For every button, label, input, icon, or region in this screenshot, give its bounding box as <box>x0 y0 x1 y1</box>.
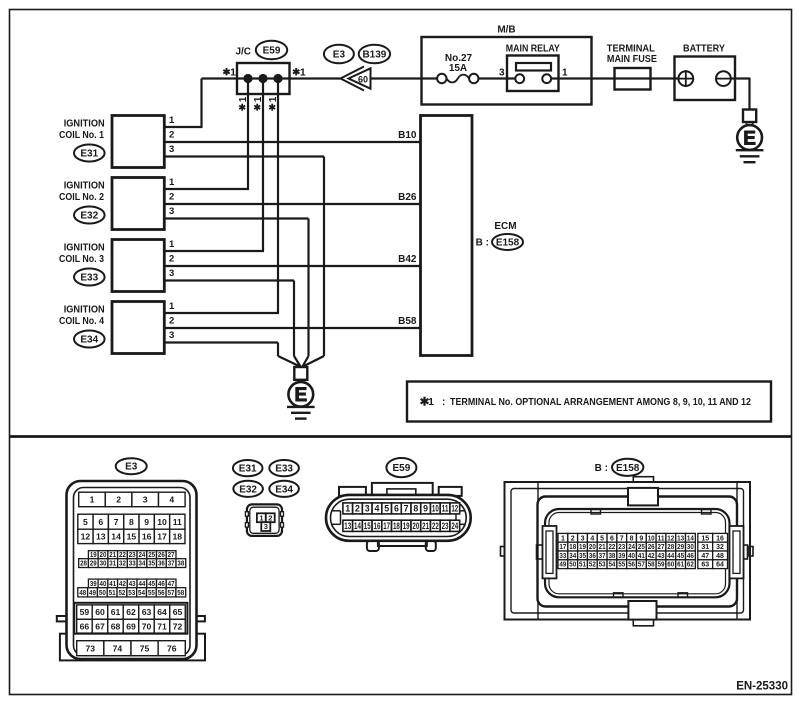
svg-text:BATTERY: BATTERY <box>683 44 725 55</box>
svg-text:8: 8 <box>413 504 418 514</box>
E158 pins 33-46 <box>558 551 695 560</box>
svg-text:E59: E59 <box>393 463 411 474</box>
svg-text:51: 51 <box>579 562 586 569</box>
svg-text:14: 14 <box>354 521 361 531</box>
svg-text:7: 7 <box>620 535 624 542</box>
svg-text:40: 40 <box>628 553 635 560</box>
svg-text:2: 2 <box>268 513 272 522</box>
svg-text:48: 48 <box>716 553 724 560</box>
ignition coil No.3 (E33) <box>59 240 164 292</box>
svg-text:15A: 15A <box>449 63 467 74</box>
svg-text:33: 33 <box>129 561 136 568</box>
svg-text:57: 57 <box>168 590 175 597</box>
svg-text:IGNITION: IGNITION <box>64 181 105 192</box>
svg-text:28: 28 <box>80 561 87 568</box>
svg-text:44: 44 <box>138 581 145 588</box>
svg-text:E34: E34 <box>275 484 293 495</box>
label *1 (left of J/C) <box>223 67 236 79</box>
svg-text:34: 34 <box>569 553 576 560</box>
svg-text:IGNITION: IGNITION <box>64 305 105 316</box>
svg-text:32: 32 <box>119 561 126 568</box>
svg-text:3: 3 <box>169 144 174 155</box>
E31-E34 pin 3 <box>261 522 270 531</box>
E31-E34 pin 2 <box>266 513 275 522</box>
wire: coil No.2 pin 3 to ground <box>164 219 308 367</box>
svg-text:18: 18 <box>393 521 400 531</box>
wire: fuse No.27 to main relay pin 3 <box>479 77 520 79</box>
svg-text:1: 1 <box>169 115 175 126</box>
svg-text:53: 53 <box>599 562 606 569</box>
svg-text:1: 1 <box>238 96 249 102</box>
svg-text:1: 1 <box>428 396 434 408</box>
E158 pins 1-14 <box>558 533 695 542</box>
svg-text:COIL No. 1: COIL No. 1 <box>59 130 104 141</box>
svg-text:11: 11 <box>442 504 449 514</box>
svg-text:67: 67 <box>95 621 105 631</box>
svg-text:71: 71 <box>157 621 167 631</box>
svg-text:14: 14 <box>687 535 694 542</box>
wire: coil No.1 pin 2 to ECM B10 <box>164 141 420 143</box>
svg-text:72: 72 <box>173 621 183 631</box>
svg-text:40: 40 <box>100 581 107 588</box>
junction connector J/C E59 <box>235 41 289 94</box>
svg-text:13: 13 <box>344 521 351 531</box>
wire: J/C dot 1 to ignition coil No.2 pin 1 <box>164 79 249 190</box>
ground E (ignition coils) <box>287 367 315 419</box>
connector view E33 label <box>269 460 299 476</box>
svg-text:74: 74 <box>113 643 123 653</box>
svg-text:48: 48 <box>79 590 86 597</box>
E158 pins 31-32 <box>698 542 728 551</box>
svg-text:60: 60 <box>667 562 674 569</box>
svg-text:50: 50 <box>569 562 576 569</box>
svg-text:J/C: J/C <box>235 47 251 58</box>
svg-text:7: 7 <box>404 504 409 514</box>
svg-text:COIL No. 4: COIL No. 4 <box>59 316 104 327</box>
svg-text:E31: E31 <box>80 149 98 160</box>
svg-text:13: 13 <box>96 532 106 542</box>
svg-text:70: 70 <box>142 621 152 631</box>
svg-text:61: 61 <box>677 562 684 569</box>
node B58 <box>398 316 417 327</box>
svg-text:1: 1 <box>169 177 175 188</box>
svg-text:28: 28 <box>667 544 674 551</box>
wire: battery negative to ground <box>731 78 750 111</box>
wire: J/C dot 3 to ignition coil No.4 pin 1 <box>164 79 279 314</box>
svg-text:2: 2 <box>169 192 174 203</box>
svg-text:14: 14 <box>111 532 121 542</box>
node B10 <box>398 130 417 141</box>
svg-text:1: 1 <box>300 67 306 79</box>
svg-text:2: 2 <box>169 316 174 327</box>
svg-text:18: 18 <box>173 532 183 542</box>
svg-text:2: 2 <box>355 504 360 514</box>
svg-text:29: 29 <box>90 561 97 568</box>
svg-text:1: 1 <box>345 504 350 514</box>
svg-text:16: 16 <box>142 532 152 542</box>
node B26 <box>398 192 417 203</box>
svg-text:44: 44 <box>667 553 674 560</box>
E59 pins 1-12 <box>343 503 460 514</box>
svg-text:22: 22 <box>432 521 439 531</box>
svg-text:1: 1 <box>169 301 175 312</box>
svg-text:52: 52 <box>589 562 596 569</box>
label *1 (right of J/C) <box>293 67 306 79</box>
svg-text:20: 20 <box>412 521 419 531</box>
wire: in-line connector to fuse No.27 <box>371 77 442 79</box>
svg-text:61: 61 <box>111 607 121 617</box>
connector view E32 label <box>233 481 263 497</box>
svg-text:19: 19 <box>579 544 586 551</box>
wire: coil No.4 pin 2 to ECM B58 <box>164 327 420 329</box>
E3 pins 59-65 <box>77 605 186 619</box>
svg-text:1: 1 <box>268 96 279 102</box>
svg-text:IGNITION: IGNITION <box>64 119 105 130</box>
M/B fuse box <box>422 25 592 105</box>
connector E59 housing <box>326 483 471 551</box>
svg-text:E: E <box>743 129 756 150</box>
svg-text:42: 42 <box>119 581 126 588</box>
svg-text:10: 10 <box>648 535 655 542</box>
svg-text:1: 1 <box>169 239 175 250</box>
svg-text:45: 45 <box>148 581 155 588</box>
svg-text:M/B: M/B <box>497 25 515 36</box>
E3 pins 73-76 <box>77 641 186 656</box>
svg-text:53: 53 <box>128 590 135 597</box>
svg-text:68: 68 <box>111 621 121 631</box>
svg-text:E34: E34 <box>80 335 98 346</box>
in-line connector E3/B139 (arrow, pin 60) <box>324 45 390 91</box>
svg-text:B139: B139 <box>362 50 386 61</box>
svg-text:6: 6 <box>610 535 614 542</box>
svg-text:E32: E32 <box>239 484 257 495</box>
E3 pins 48-58 <box>78 588 186 597</box>
svg-text:B26: B26 <box>398 192 417 203</box>
svg-text:46: 46 <box>158 581 165 588</box>
svg-text:31: 31 <box>701 544 709 551</box>
svg-text:MAIN FUSE: MAIN FUSE <box>607 54 657 65</box>
svg-text:17: 17 <box>559 544 566 551</box>
svg-text:TERMINAL No. OPTIONAL ARRANGEM: TERMINAL No. OPTIONAL ARRANGEMENT AMONG … <box>450 397 751 408</box>
label *1 (wire 2) <box>253 96 264 110</box>
svg-text:3: 3 <box>169 330 174 341</box>
svg-text:23: 23 <box>618 544 625 551</box>
svg-text:63: 63 <box>142 607 152 617</box>
pin labels coil 2 <box>169 177 175 217</box>
ground E (battery) <box>736 110 764 163</box>
connector view E59 label <box>386 458 416 477</box>
svg-text:29: 29 <box>677 544 684 551</box>
node B42 <box>398 254 417 265</box>
svg-text:30: 30 <box>687 544 694 551</box>
svg-text:E31: E31 <box>239 464 257 475</box>
E31-E34 pin 1 <box>257 513 266 522</box>
svg-text:5: 5 <box>83 517 88 527</box>
svg-text::: : <box>442 397 445 408</box>
svg-text:3: 3 <box>499 68 505 79</box>
svg-text:E3: E3 <box>333 50 346 61</box>
svg-text:9: 9 <box>144 517 149 527</box>
label *1 (wire 3) <box>268 96 279 110</box>
svg-text:75: 75 <box>140 643 150 653</box>
E3 pins 39-47 <box>88 579 176 588</box>
E3 pins 28-38 <box>79 559 186 568</box>
svg-text:50: 50 <box>99 590 106 597</box>
svg-text:1: 1 <box>253 96 264 102</box>
svg-text:COIL No. 3: COIL No. 3 <box>59 254 104 265</box>
svg-text:21: 21 <box>422 521 429 531</box>
svg-text:57: 57 <box>638 562 645 569</box>
connector E31-E34 housing <box>245 504 283 536</box>
svg-text:41: 41 <box>638 553 645 560</box>
svg-text:52: 52 <box>118 590 125 597</box>
svg-text:12: 12 <box>667 535 674 542</box>
svg-text:42: 42 <box>648 553 655 560</box>
ignition coil No.4 (E34) <box>59 302 164 354</box>
svg-text:12: 12 <box>451 504 458 514</box>
svg-text:32: 32 <box>716 544 724 551</box>
wire: coil No.3 pin 3 to ground <box>164 281 300 367</box>
svg-text:5: 5 <box>600 535 604 542</box>
svg-text:37: 37 <box>599 553 606 560</box>
svg-text:60: 60 <box>358 74 368 84</box>
svg-text:6: 6 <box>98 517 103 527</box>
svg-text:6: 6 <box>394 504 399 514</box>
connector view E31 label <box>233 460 263 476</box>
svg-text:E158: E158 <box>616 463 640 474</box>
svg-text:37: 37 <box>168 561 175 568</box>
svg-text:23: 23 <box>442 521 449 531</box>
svg-text:2: 2 <box>169 130 174 141</box>
svg-text:TERMINAL: TERMINAL <box>607 44 655 55</box>
svg-text:12: 12 <box>81 532 91 542</box>
svg-text:17: 17 <box>383 521 390 531</box>
ignition coil No.1 (E31) <box>59 116 164 168</box>
svg-text:56: 56 <box>158 590 165 597</box>
svg-text:54: 54 <box>138 590 145 597</box>
svg-text:46: 46 <box>687 553 694 560</box>
E158 pins 63-64 <box>698 560 728 569</box>
svg-text:9: 9 <box>639 535 643 542</box>
svg-text:16: 16 <box>716 535 724 542</box>
ignition coil No.2 (E32) <box>59 178 164 230</box>
svg-text:E158: E158 <box>496 238 520 249</box>
E158 pins 47-48 <box>698 551 728 560</box>
svg-text:38: 38 <box>608 553 615 560</box>
figure number EN-25330 <box>736 681 788 693</box>
svg-text:58: 58 <box>648 562 655 569</box>
svg-text:1: 1 <box>561 535 565 542</box>
svg-text:56: 56 <box>628 562 635 569</box>
pin 1 label (main relay) <box>562 68 568 79</box>
svg-text:26: 26 <box>648 544 655 551</box>
svg-text:E3: E3 <box>125 462 138 473</box>
label *1 (wire 1) <box>238 96 249 110</box>
junction dot 2 <box>258 74 267 83</box>
svg-text:E59: E59 <box>263 46 281 57</box>
terminal main fuse <box>607 44 657 90</box>
svg-text:B :: B : <box>595 463 608 474</box>
svg-text:11: 11 <box>173 517 182 527</box>
svg-text:43: 43 <box>658 553 665 560</box>
svg-text:31: 31 <box>109 561 116 568</box>
svg-text:59: 59 <box>80 607 90 617</box>
connector E3 housing <box>57 481 205 660</box>
wire: coil No.1 pin 3 to ground <box>164 157 324 367</box>
svg-text:35: 35 <box>148 561 155 568</box>
svg-text:21: 21 <box>599 544 606 551</box>
svg-text:4: 4 <box>374 504 379 514</box>
svg-text:E33: E33 <box>275 464 293 475</box>
fuse No.27 15A <box>437 53 478 83</box>
svg-text:19: 19 <box>403 521 410 531</box>
svg-text:76: 76 <box>167 643 177 653</box>
svg-text:IGNITION: IGNITION <box>64 243 105 254</box>
svg-text:2: 2 <box>116 495 121 505</box>
svg-text:62: 62 <box>687 562 694 569</box>
svg-text:73: 73 <box>85 643 95 653</box>
svg-text:27: 27 <box>658 544 665 551</box>
wire: main feed J/C to in-line connector <box>202 77 341 79</box>
E158 pins 15-16 <box>698 533 728 542</box>
connector E158 housing <box>501 477 754 626</box>
svg-text:3: 3 <box>264 522 268 531</box>
svg-text:36: 36 <box>158 561 165 568</box>
pin labels coil 3 <box>169 239 175 279</box>
svg-text:COIL No. 2: COIL No. 2 <box>59 192 104 203</box>
connector view B: E158 label <box>595 459 644 476</box>
svg-text:1: 1 <box>90 495 95 505</box>
svg-text:49: 49 <box>559 562 566 569</box>
svg-text:3: 3 <box>581 535 585 542</box>
svg-text:39: 39 <box>618 553 625 560</box>
svg-text:41: 41 <box>109 581 116 588</box>
svg-text:55: 55 <box>148 590 155 597</box>
svg-text:16: 16 <box>374 521 381 531</box>
pin labels coil 1 <box>169 115 175 155</box>
svg-text:B10: B10 <box>398 130 417 141</box>
svg-text:10: 10 <box>157 517 167 527</box>
svg-text:3: 3 <box>169 206 174 217</box>
svg-text:15: 15 <box>701 535 709 542</box>
svg-text:15: 15 <box>127 532 137 542</box>
wire: main relay pin 1 to battery <box>547 77 679 79</box>
ECM (B: E158) <box>421 116 524 356</box>
svg-text:E33: E33 <box>80 273 98 284</box>
svg-text:20: 20 <box>589 544 596 551</box>
svg-text:49: 49 <box>89 590 96 597</box>
svg-text:1: 1 <box>259 513 263 522</box>
svg-text:ECM: ECM <box>494 221 516 232</box>
svg-text:25: 25 <box>638 544 645 551</box>
svg-text:2: 2 <box>571 535 575 542</box>
svg-text:13: 13 <box>677 535 684 542</box>
wire: coil No.3 pin 2 to ECM B42 <box>164 265 420 267</box>
pin 3 label (main relay) <box>499 68 505 79</box>
svg-text:59: 59 <box>658 562 665 569</box>
svg-text:36: 36 <box>589 553 596 560</box>
svg-text:B :: B : <box>476 238 489 249</box>
E158 pins 17-30 <box>558 542 695 551</box>
svg-text:3: 3 <box>365 504 370 514</box>
svg-text:15: 15 <box>364 521 371 531</box>
note *1 terminal arrangement <box>407 382 771 422</box>
wire: coil No.4 pin 3 to ground <box>164 343 300 367</box>
svg-text:38: 38 <box>177 561 184 568</box>
svg-text:69: 69 <box>126 621 136 631</box>
svg-text:34: 34 <box>139 561 146 568</box>
E3 pins 66-72 <box>77 619 186 633</box>
svg-text:65: 65 <box>173 607 183 617</box>
E3 pins 19-27 <box>88 551 176 560</box>
svg-text:39: 39 <box>90 581 97 588</box>
svg-text:E: E <box>294 385 307 406</box>
svg-text:47: 47 <box>701 553 709 560</box>
svg-text:24: 24 <box>628 544 635 551</box>
svg-text:45: 45 <box>677 553 684 560</box>
svg-text:E32: E32 <box>80 211 98 222</box>
svg-text:9: 9 <box>423 504 428 514</box>
svg-text:8: 8 <box>630 535 634 542</box>
svg-text:2: 2 <box>169 254 174 265</box>
svg-text:43: 43 <box>129 581 136 588</box>
svg-text:64: 64 <box>157 607 167 617</box>
svg-text:3: 3 <box>169 268 174 279</box>
svg-text:1: 1 <box>562 68 568 79</box>
E59 pins 13-24 <box>343 520 460 531</box>
battery (+ and - terminals) <box>675 44 736 101</box>
svg-text:51: 51 <box>109 590 116 597</box>
wire: coil No.2 pin 2 to ECM B26 <box>164 203 420 205</box>
svg-text:4: 4 <box>590 535 594 542</box>
svg-text:62: 62 <box>126 607 136 617</box>
svg-text:7: 7 <box>114 517 119 527</box>
E3 pins 1-4 <box>79 492 185 507</box>
E3 pins 12-18 <box>78 529 185 543</box>
svg-text:5: 5 <box>384 504 389 514</box>
svg-text:24: 24 <box>451 521 458 531</box>
svg-text:63: 63 <box>701 562 709 569</box>
wire: J/C to ignition coil No.1 pin 1 <box>164 79 202 128</box>
E3 pins 5-11 <box>78 514 185 529</box>
svg-text:17: 17 <box>157 532 167 542</box>
svg-text:60: 60 <box>95 607 105 617</box>
connector view E34 label <box>269 481 299 497</box>
svg-text:30: 30 <box>100 561 107 568</box>
svg-text:22: 22 <box>608 544 615 551</box>
svg-text:1: 1 <box>230 67 236 79</box>
svg-text:64: 64 <box>716 562 724 569</box>
svg-text:35: 35 <box>579 553 586 560</box>
svg-text:B58: B58 <box>398 316 417 327</box>
svg-text:10: 10 <box>432 504 439 514</box>
E3 middle block frame <box>74 603 187 634</box>
svg-text:66: 66 <box>80 621 90 631</box>
connector view E3 label <box>116 458 147 474</box>
wire: J/C dot 2 to ignition coil No.3 pin 1 <box>164 79 264 252</box>
svg-text:58: 58 <box>177 590 184 597</box>
svg-text:33: 33 <box>559 553 566 560</box>
svg-text:B42: B42 <box>398 254 417 265</box>
pin labels coil 4 <box>169 301 175 341</box>
svg-text:11: 11 <box>658 535 665 542</box>
svg-text:MAIN RELAY: MAIN RELAY <box>506 44 560 55</box>
main relay <box>506 44 560 92</box>
svg-text:47: 47 <box>168 581 175 588</box>
junction dot 3 <box>273 74 282 83</box>
svg-text:8: 8 <box>129 517 134 527</box>
svg-text:3: 3 <box>143 495 148 505</box>
